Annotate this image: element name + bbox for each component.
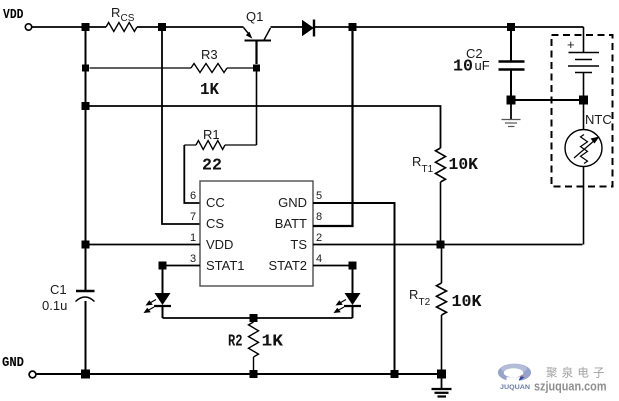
- junction GND x394: [391, 370, 399, 378]
- svg-text:8: 8: [316, 211, 322, 223]
- svg-text:STAT2: STAT2: [268, 258, 307, 273]
- svg-text:CS: CS: [121, 13, 135, 24]
- wire diode to battery corner: [315, 26, 584, 28]
- resistor R3: [90, 67, 192, 69]
- transistor Q1: [244, 9, 272, 64]
- battery BT1: [567, 27, 599, 100]
- svg-text:1K: 1K: [262, 332, 284, 351]
- junction top x162: [158, 23, 166, 31]
- svg-text:10: 10: [453, 57, 473, 76]
- wire pin3 STAT1: [163, 265, 201, 267]
- svg-text:22: 22: [202, 156, 222, 175]
- diode D1: [302, 20, 314, 37]
- svg-text:R: R: [409, 287, 418, 302]
- wire RCS to Q1: [137, 26, 244, 28]
- junction R2 top: [250, 314, 258, 322]
- svg-text:CS: CS: [206, 216, 224, 231]
- svg-text:TS: TS: [290, 237, 307, 252]
- svg-text:CC: CC: [206, 195, 225, 210]
- wire LED bottoms: [163, 317, 353, 319]
- svg-text:1: 1: [190, 232, 196, 244]
- svg-text:STAT1: STAT1: [206, 258, 245, 273]
- junction TS-RT: [437, 241, 445, 249]
- junction R3 left: [82, 65, 89, 72]
- wire pin5 GND right and down: [313, 203, 395, 374]
- capacitor C1: [42, 282, 95, 313]
- svg-text:VDD: VDD: [3, 8, 24, 23]
- wire pin4 STAT2: [313, 265, 353, 267]
- svg-text:1K: 1K: [200, 80, 219, 99]
- wire Q1 base down to R1: [256, 68, 258, 145]
- resistor R1: [184, 144, 196, 146]
- svg-text:R1: R1: [203, 127, 220, 142]
- svg-text:4: 4: [316, 253, 322, 265]
- terminal GND: [29, 371, 36, 378]
- svg-text:5: 5: [316, 190, 322, 202]
- thermistor NTC: [565, 100, 612, 245]
- junction GND x85: [81, 370, 90, 379]
- svg-text:+: +: [567, 37, 575, 52]
- watermark logo: [498, 364, 607, 394]
- svg-text:3: 3: [190, 253, 196, 265]
- svg-text:uF: uF: [475, 58, 490, 73]
- junction pin3 corner: [159, 262, 167, 270]
- wire R1 left down to pin6: [184, 145, 200, 203]
- junction top-left: [82, 23, 90, 31]
- svg-text:R2: R2: [228, 332, 243, 351]
- junction top x352: [349, 23, 357, 31]
- terminal VDD: [25, 24, 31, 30]
- svg-text:7: 7: [190, 211, 196, 223]
- wire C2 to battery bottom: [511, 99, 584, 101]
- svg-text:R: R: [412, 154, 421, 169]
- svg-text:T2: T2: [419, 297, 431, 308]
- IC U1 body: [200, 181, 313, 286]
- resistor RT2: [441, 245, 443, 284]
- resistor R2: [253, 318, 255, 322]
- wire pin1 VDD: [86, 244, 201, 246]
- LED D2: [144, 266, 172, 319]
- resistor RCS: [106, 23, 137, 32]
- svg-text:R3: R3: [201, 47, 218, 62]
- junction battery bottom: [579, 96, 588, 105]
- junction top C2: [507, 23, 515, 31]
- battery pack dashed box: [552, 35, 613, 187]
- junction R3 right (Q1 base): [253, 65, 260, 72]
- wire horizontal y106 to RT1: [86, 106, 441, 148]
- svg-text:JUQUAN: JUQUAN: [500, 384, 530, 391]
- svg-text:GND: GND: [278, 195, 307, 210]
- svg-text:10K: 10K: [449, 155, 479, 174]
- svg-text:Q1: Q1: [246, 9, 263, 24]
- wire pin2 TS: [313, 244, 583, 246]
- ground symbol C2: [502, 105, 521, 127]
- wire VDD to RCS: [32, 26, 106, 28]
- svg-text:10K: 10K: [452, 292, 482, 311]
- ground symbol RT2: [432, 378, 452, 397]
- svg-text:T1: T1: [422, 164, 434, 175]
- wire Q1 collector to diode: [271, 26, 303, 28]
- svg-text:6: 6: [190, 190, 196, 202]
- svg-text:2: 2: [316, 232, 322, 244]
- svg-text:NTC: NTC: [585, 112, 612, 127]
- svg-text:GND: GND: [2, 356, 24, 371]
- capacitor C2: [453, 27, 525, 100]
- wire rail x162 to pin7: [162, 27, 200, 224]
- junction y106 left: [82, 102, 90, 110]
- svg-text:BATT: BATT: [275, 216, 307, 231]
- LED D3: [334, 266, 362, 319]
- svg-text:R: R: [111, 5, 120, 20]
- svg-text:0.1u: 0.1u: [42, 298, 67, 313]
- svg-text:C1: C1: [50, 282, 67, 297]
- junction GND RT2: [437, 370, 446, 379]
- resistor RT1: [436, 148, 446, 182]
- wire left rail x85: [85, 27, 87, 290]
- svg-text:szjuquan.com: szjuquan.com: [534, 379, 607, 394]
- junction pin4 corner: [349, 262, 357, 270]
- wire pin8 BATT right and up: [313, 27, 353, 226]
- junction C2 bottom: [507, 96, 516, 105]
- wire GND rail: [36, 373, 442, 375]
- junction pin1 at rail: [82, 241, 90, 249]
- svg-text:VDD: VDD: [206, 237, 233, 252]
- junction GND R2: [250, 370, 258, 378]
